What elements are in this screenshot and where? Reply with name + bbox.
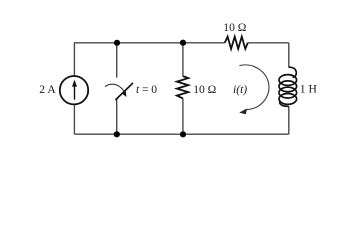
wire top-right segment bbox=[248, 42, 289, 44]
node D dot bbox=[180, 131, 186, 137]
svg-text:1 H: 1 H bbox=[300, 83, 318, 96]
loop current arrowhead bbox=[239, 109, 247, 115]
node C dot bbox=[114, 131, 120, 137]
wire switch branch upper bbox=[116, 43, 118, 78]
wire switch branch lower bbox=[116, 99, 118, 134]
current source I1 circle bbox=[60, 76, 88, 104]
svg-text:t=0: t=0 bbox=[136, 83, 157, 96]
wire left branch lower bbox=[73, 104, 75, 134]
switch SW1 arrowhead bbox=[122, 91, 127, 97]
svg-text:i(t): i(t) bbox=[233, 83, 247, 96]
svg-text:10 Ω: 10 Ω bbox=[193, 83, 216, 96]
switch SW1 blade bbox=[115, 83, 133, 100]
svg-text:2 A: 2 A bbox=[39, 83, 56, 96]
resistor R2 10 ohm series zigzag bbox=[225, 37, 248, 49]
current source I1 arrow bbox=[72, 80, 77, 100]
svg-text:10 Ω: 10 Ω bbox=[223, 21, 246, 34]
node A dot bbox=[114, 40, 120, 46]
wire resistor branch lower bbox=[182, 98, 184, 134]
resistor R1 10 ohm shunt zigzag bbox=[177, 76, 188, 98]
wire inductor branch upper bbox=[288, 43, 290, 68]
wire top-left segment bbox=[74, 42, 224, 44]
wire inductor branch lower bbox=[288, 106, 290, 134]
wire bottom bbox=[74, 133, 288, 135]
switch SW1 actuation arc bbox=[105, 84, 125, 93]
wire left branch upper bbox=[73, 42, 75, 76]
inductor L1 coil bbox=[279, 67, 297, 106]
node B dot bbox=[180, 40, 186, 46]
wire resistor branch upper bbox=[182, 43, 184, 76]
loop current arrow i(t) arc bbox=[239, 65, 269, 110]
